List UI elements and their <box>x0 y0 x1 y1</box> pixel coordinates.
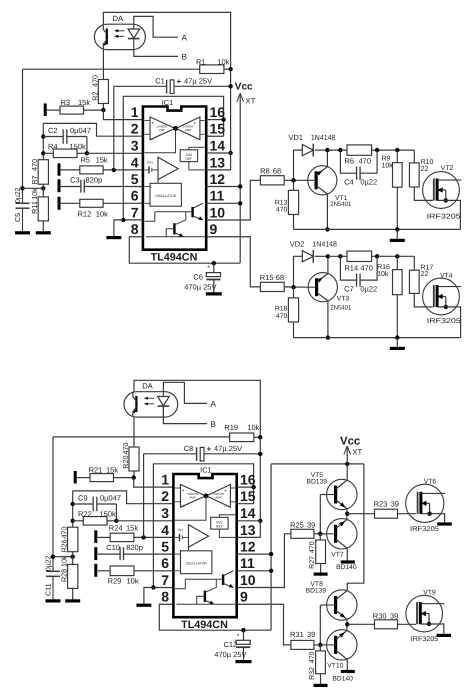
ground row2 <box>390 338 405 349</box>
pins 16/15 bracket (bottom) <box>237 485 256 504</box>
svg-text:0µ22: 0µ22 <box>43 556 52 572</box>
svg-text:R15: R15 <box>260 273 274 282</box>
wire opto collector to right rail (bottom) <box>134 380 260 437</box>
svg-text:820p: 820p <box>126 543 143 552</box>
IC1 error amp 1 <box>145 117 176 140</box>
svg-text:22: 22 <box>421 271 429 278</box>
right rail R1/Vcc to pins 14,13 <box>206 69 233 170</box>
svg-text:VT6: VT6 <box>424 479 437 486</box>
svg-text:R12: R12 <box>78 210 92 219</box>
svg-text:A: A <box>211 400 217 409</box>
svg-text:15: 15 <box>210 121 226 137</box>
ground bar left of R29 <box>94 564 97 577</box>
svg-text:8: 8 <box>131 221 139 237</box>
svg-text:2N5401: 2N5401 <box>330 304 351 311</box>
svg-text:OSCILLATOR: OSCILLATOR <box>155 194 177 198</box>
svg-text:_: _ <box>193 135 197 140</box>
svg-text:0V1: 0V1 <box>178 528 184 532</box>
optocoupler LED <box>128 24 140 49</box>
svg-text:R22: R22 <box>78 510 92 519</box>
svg-text:15k: 15k <box>96 156 108 165</box>
terminal XT arrow (top) <box>237 93 256 263</box>
ground bar left of R3 <box>44 103 47 116</box>
svg-text:R4: R4 <box>48 142 58 151</box>
svg-text:C12: C12 <box>224 640 238 649</box>
capacitor C12 470u 25V <box>214 628 251 662</box>
pin 8 wire to C6 node <box>129 237 240 263</box>
IC1 output transistor Q1 <box>145 203 203 221</box>
pin 10 wire to R25 <box>237 534 291 588</box>
svg-text:4: 4 <box>161 522 169 538</box>
svg-text:R16: R16 <box>377 264 390 271</box>
svg-text:39: 39 <box>307 630 315 639</box>
IC1 pin 3 number <box>131 137 139 153</box>
IC1 ground bus (pins 15/16 top rail and left rail) <box>123 96 223 220</box>
resistor R3 15k <box>47 98 104 114</box>
wire pin 2 net <box>41 123 143 153</box>
transistor VT4 IRF3205 <box>423 272 462 337</box>
svg-text:AMP: AMP <box>215 495 222 499</box>
wire pin 2 net (bottom) <box>71 491 174 521</box>
svg-text:VD2: VD2 <box>290 239 305 248</box>
svg-text:1N4148: 1N4148 <box>311 133 336 142</box>
pin 9 wire to R31 <box>237 604 291 645</box>
IC1b pin 14 number <box>240 505 256 521</box>
resistor R32 470 <box>309 645 325 684</box>
optocoupler DA body <box>94 14 145 50</box>
svg-text:B: B <box>211 420 217 429</box>
svg-text:470: 470 <box>309 541 316 553</box>
wire opto emitter to R2 <box>102 50 104 80</box>
Vcc rail (bottom) <box>271 462 364 631</box>
svg-text:10k: 10k <box>247 423 259 432</box>
svg-text:R28: R28 <box>60 569 69 582</box>
svg-text:10k: 10k <box>217 57 229 66</box>
svg-text:XT: XT <box>245 96 255 105</box>
IC1b pin 16 number <box>240 472 256 488</box>
svg-text:39: 39 <box>307 521 315 530</box>
svg-text:0µ22: 0µ22 <box>360 177 377 186</box>
svg-text:68: 68 <box>273 167 281 176</box>
svg-text:10k: 10k <box>377 270 389 278</box>
IC1 feedback node to pin 3 <box>145 126 178 153</box>
svg-text:R6: R6 <box>344 156 354 165</box>
ground bar left of C3 <box>58 179 61 192</box>
resistor R20 470 <box>121 443 139 472</box>
svg-text:TL494CN: TL494CN <box>181 619 228 631</box>
IC1 pin 16 number <box>210 104 226 120</box>
svg-text:15k: 15k <box>106 466 118 475</box>
resistor R24 15k <box>97 524 173 542</box>
transistor VT7 BD140 <box>327 514 357 572</box>
svg-text:R8: R8 <box>260 167 270 176</box>
svg-text:BD139: BD139 <box>307 479 328 486</box>
wire opto collector to right rail <box>103 12 230 69</box>
svg-text:470: 470 <box>121 443 130 455</box>
svg-text:R32: R32 <box>309 667 316 680</box>
svg-text:R3: R3 <box>61 98 71 107</box>
svg-text:2: 2 <box>161 488 169 504</box>
svg-text:BD139: BD139 <box>306 587 327 594</box>
svg-text:R1: R1 <box>196 57 206 66</box>
IC1b 5V reference box <box>211 515 236 538</box>
svg-text:0µ22: 0µ22 <box>13 188 22 204</box>
IC1b pin 13 number <box>240 522 256 538</box>
IC1b ground bus (pins 15/16 top rail and left rail) <box>153 464 253 588</box>
svg-text:B: B <box>182 53 188 62</box>
svg-text:DA: DA <box>142 382 153 391</box>
wire opto emitter to R20 (bottom) <box>133 417 135 447</box>
svg-text:+: + <box>224 489 227 494</box>
svg-text:470: 470 <box>276 207 288 214</box>
svg-text:R21: R21 <box>89 466 103 475</box>
svg-text:4: 4 <box>131 154 139 170</box>
ground at pin 7 (bottom) <box>136 604 151 607</box>
svg-text:0µ22: 0µ22 <box>360 284 377 293</box>
svg-text:XT: XT <box>352 447 362 456</box>
svg-text:10: 10 <box>240 572 256 588</box>
svg-text:15k: 15k <box>126 524 138 533</box>
svg-text:470µ 25V: 470µ 25V <box>184 283 216 292</box>
svg-text:+: + <box>193 121 196 126</box>
IC1 dead-time comparator <box>145 157 179 183</box>
svg-text:C9: C9 <box>78 494 88 503</box>
IC1b label TL494CN <box>181 619 228 631</box>
svg-text:R9: R9 <box>382 156 391 163</box>
svg-text:Vcc: Vcc <box>235 81 253 92</box>
svg-text:10k: 10k <box>382 162 394 170</box>
wire row1 emitter/source ground row <box>294 227 461 231</box>
optocoupler phototransistor (bottom) <box>133 392 137 417</box>
svg-text:470: 470 <box>309 651 316 663</box>
svg-text:IRF3205: IRF3205 <box>410 526 439 533</box>
resistor R31 39 <box>290 630 320 649</box>
wire VT7 collector to ground <box>341 548 355 562</box>
pin 8 wire to C12 node <box>159 604 271 630</box>
wire row2 emitter/source ground row <box>294 335 461 339</box>
svg-text:VT7: VT7 <box>331 552 344 559</box>
IC1b pin 9 number <box>240 589 248 605</box>
wire left rail <box>20 69 24 203</box>
IC1b output transistor Q1 <box>175 571 233 589</box>
resistor R14 470 <box>344 251 414 272</box>
svg-text:Vcc: Vcc <box>340 435 360 447</box>
IC1 pin 12 number <box>210 171 226 187</box>
ground bar left of R5 <box>58 163 61 176</box>
svg-text:15: 15 <box>240 488 256 504</box>
resistor R5 15k <box>61 156 143 174</box>
resistor R18 470 <box>275 287 299 337</box>
svg-text:10k: 10k <box>60 555 69 567</box>
IC1b pin 15 number <box>240 488 256 504</box>
resistor R13 470 <box>275 180 299 229</box>
IC1 pin 1 number <box>131 104 139 120</box>
svg-text:OSCILLATOR: OSCILLATOR <box>186 561 208 565</box>
pins 16/15 bracket <box>206 117 226 136</box>
IC1b pin 6 number <box>161 555 169 571</box>
emitter junction lower pair <box>345 622 374 626</box>
IC1 pin 15 number <box>210 121 226 137</box>
wire A (bottom) <box>163 382 216 408</box>
wire B (LED cathode to terminal B) <box>134 50 188 62</box>
transistor VT8 BD139 <box>306 581 357 624</box>
ground row1 <box>390 229 405 240</box>
capacitor C8 47u 25V <box>144 444 261 537</box>
svg-text:+: + <box>182 489 185 494</box>
svg-text:BD140: BD140 <box>332 676 353 683</box>
svg-text:AMP: AMP <box>185 128 192 132</box>
IC1 pin 10 number <box>210 204 226 220</box>
wire bases VT5/VT7 <box>318 495 327 537</box>
IC1b pin 5 number <box>161 539 169 555</box>
wire VD2 row <box>328 254 347 258</box>
ground under R32 <box>314 684 328 687</box>
pin 12 lead <box>206 184 242 188</box>
transistor VT6 IRF3205 <box>406 479 452 533</box>
IC1 pin 8 number <box>131 221 139 237</box>
IC1b pin 4 number <box>161 522 169 538</box>
transistor VT9 IRF3205 <box>406 589 451 642</box>
IC1 output transistor Q2 <box>146 212 205 237</box>
transistor VT5 BD139 <box>307 472 357 514</box>
ground bar left of R12 <box>58 197 61 210</box>
wire bases VT8/VT10 <box>318 605 327 647</box>
transistor VT2 IRF3205 <box>423 165 462 229</box>
svg-text:1: 1 <box>161 472 169 488</box>
svg-text:VT9: VT9 <box>423 589 436 596</box>
svg-text:R11: R11 <box>30 201 39 214</box>
svg-text:R14: R14 <box>344 263 358 272</box>
svg-text:REF: REF <box>186 157 193 161</box>
svg-text:22: 22 <box>421 166 429 173</box>
svg-text:5: 5 <box>131 171 139 187</box>
IC1 pin 11 number <box>210 188 225 204</box>
wire Vcc to VT5 collector <box>346 464 348 480</box>
IC1b dead-time comparator <box>175 525 209 551</box>
svg-text:_: _ <box>223 503 227 508</box>
svg-text:REF: REF <box>216 525 223 529</box>
capacitor C3 820p <box>61 175 143 192</box>
svg-text:9: 9 <box>210 221 218 237</box>
IC1 label TL494CN <box>151 251 198 263</box>
ground under C11 <box>46 599 61 602</box>
resistor R30 39 <box>373 611 416 628</box>
optocoupler light arrows <box>114 29 124 38</box>
IC1b feedback node to pin 3 <box>175 494 208 521</box>
resistor R10 22 <box>409 150 433 200</box>
IC1 pin 7 number <box>131 204 139 220</box>
pin 10 wire to R8 <box>206 180 260 220</box>
svg-text:10k: 10k <box>96 210 108 219</box>
resistor R21 15k <box>77 466 134 482</box>
IC1 pin 2 number <box>131 121 139 137</box>
terminal XT arrow (bottom) <box>344 446 363 464</box>
emitter junction upper pair <box>345 512 374 516</box>
resistor R28 10k <box>60 555 78 600</box>
svg-text:39: 39 <box>390 611 398 620</box>
capacitor C2 0u047 <box>43 126 91 144</box>
IC1b pin 2 number <box>161 488 169 504</box>
pin 11 lead (bottom) <box>237 569 274 573</box>
pin 7 ground <box>114 218 143 237</box>
IC1 error amp 2 <box>176 117 205 140</box>
pin 12 lead (bottom) <box>237 552 274 556</box>
resistor R16 10k <box>377 256 402 337</box>
svg-text:12: 12 <box>240 539 256 555</box>
wire B (bottom) <box>163 406 216 429</box>
right rail R19 to pins 14,13 (bottom) <box>237 437 263 537</box>
svg-text:C6: C6 <box>193 272 203 281</box>
svg-text:3: 3 <box>161 505 169 521</box>
resistor R27 470 <box>309 534 325 573</box>
resistor R6 470 <box>344 145 414 166</box>
svg-text:13: 13 <box>240 522 256 538</box>
optocoupler light arrows (bottom) <box>144 397 154 406</box>
svg-text:470µ 25V: 470µ 25V <box>214 650 246 659</box>
wire C9/R22 to pin 3 <box>114 504 173 523</box>
resistor R29 10k <box>97 566 173 586</box>
svg-text:7: 7 <box>131 204 139 220</box>
IC1b error amp 2 <box>206 485 235 508</box>
IC1b output transistor Q2 <box>176 579 235 604</box>
svg-text:+: + <box>207 444 212 453</box>
svg-text:R27: R27 <box>309 556 316 569</box>
wire Vcc to VT8 collector <box>347 464 364 590</box>
svg-text:IRF3205: IRF3205 <box>411 636 439 643</box>
svg-text:470: 470 <box>359 156 372 165</box>
svg-text:R7: R7 <box>30 175 39 184</box>
svg-text:2N5401: 2N5401 <box>330 201 351 208</box>
svg-text:0µ047: 0µ047 <box>70 126 91 135</box>
IC1b pin 8 number <box>161 589 169 605</box>
wire divider midpoint <box>23 186 46 190</box>
svg-text:C5: C5 <box>13 213 22 222</box>
resistor R2 470 <box>90 75 108 104</box>
wire VD1 row <box>327 148 347 152</box>
svg-text:R23: R23 <box>374 500 388 509</box>
svg-text:VT2: VT2 <box>441 165 454 172</box>
IC1b pin 10 number <box>240 572 256 588</box>
IC1b oscillator box <box>175 551 212 574</box>
svg-text:0V1: 0V1 <box>147 160 153 164</box>
resistor R22 150k <box>71 510 117 526</box>
svg-text:R5: R5 <box>80 156 90 165</box>
svg-text:5: 5 <box>161 539 169 555</box>
svg-text:820p: 820p <box>86 175 103 184</box>
svg-text:VD1: VD1 <box>288 133 303 142</box>
svg-text:9: 9 <box>240 589 248 605</box>
svg-text:15k: 15k <box>78 98 90 107</box>
svg-text:R20: R20 <box>121 456 130 469</box>
wire R2/R3 to pin 1 <box>101 104 143 120</box>
svg-text:470: 470 <box>90 75 99 87</box>
ground under R28 <box>65 599 80 602</box>
IC1 pin 14 number <box>210 137 226 153</box>
resistor R4 150k <box>41 142 87 158</box>
svg-text:470: 470 <box>30 159 39 171</box>
svg-text:150k: 150k <box>100 510 117 519</box>
svg-text:12: 12 <box>210 171 226 187</box>
svg-text:C8: C8 <box>184 444 194 453</box>
ground bar left of R21 <box>74 471 77 484</box>
svg-text:R18: R18 <box>275 306 288 313</box>
resistor R17 22 <box>409 256 433 307</box>
transistor VT10 BD140 <box>327 624 357 682</box>
IC1 pin 4 number <box>131 154 139 170</box>
svg-text:R13: R13 <box>275 199 288 206</box>
resistor R7 470 <box>30 153 48 188</box>
resistor R26 470 <box>60 521 78 557</box>
svg-text:VT4: VT4 <box>440 272 453 279</box>
wire VT10 collector to ground <box>341 659 355 671</box>
pin 7 ground (bottom) <box>144 585 174 604</box>
svg-text:C3: C3 <box>70 175 80 184</box>
svg-text:39: 39 <box>391 500 399 509</box>
resistor R8 68 <box>260 167 308 185</box>
IC1b pin 7 number <box>161 572 169 588</box>
IC1 pin 6 number <box>131 188 139 204</box>
svg-text:C11: C11 <box>43 583 52 596</box>
svg-text:DA: DA <box>113 14 124 23</box>
Vcc label (top) <box>235 81 253 92</box>
IC1 oscillator box <box>145 183 182 206</box>
svg-text:470: 470 <box>60 527 69 539</box>
svg-text:13: 13 <box>210 154 226 170</box>
capacitor C1 47u 25V <box>114 77 231 170</box>
optocoupler DA (bottom) body <box>124 382 178 418</box>
svg-text:C2: C2 <box>48 126 58 135</box>
IC1 pin 13 number <box>210 154 226 170</box>
resistor R9 10k <box>382 150 403 229</box>
pin 11 lead <box>206 201 242 205</box>
svg-text:3: 3 <box>131 137 139 153</box>
ground under R27 <box>314 572 328 575</box>
svg-text:6: 6 <box>161 555 169 571</box>
resistor R11 10k <box>30 188 48 232</box>
svg-text:A: A <box>182 33 188 42</box>
svg-text:1: 1 <box>131 104 139 120</box>
transistor VT1 2N5401 <box>308 148 352 232</box>
capacitor C6 470u 25V <box>184 261 222 294</box>
wire C2/R4 to pin 3 <box>85 137 143 156</box>
svg-text:IC1: IC1 <box>200 465 212 474</box>
pin 9 wire to R15 <box>206 237 260 287</box>
resistor R12 10k <box>61 199 143 218</box>
IC1b body <box>173 465 236 617</box>
wire A (LED anode to terminal A) <box>134 16 188 42</box>
capacitor C7 0u22 <box>340 256 377 293</box>
IC1 pin 9 number <box>210 221 218 237</box>
capacitor C10 820p <box>97 543 173 560</box>
svg-text:11: 11 <box>210 188 225 204</box>
optocoupler LED (bottom) <box>158 392 170 417</box>
svg-text:VT3: VT3 <box>337 296 350 303</box>
IC1b pin 11 number <box>240 555 255 571</box>
Vcc label (bottom) <box>340 435 360 447</box>
IC1 pin 5 number <box>131 171 139 187</box>
svg-text:C10: C10 <box>106 543 120 552</box>
svg-text:14: 14 <box>240 505 256 521</box>
IC1b pin 1 number <box>161 472 169 488</box>
svg-text:7: 7 <box>161 572 169 588</box>
transistor VT3 2N5401 <box>308 254 352 340</box>
svg-text:_: _ <box>181 503 185 508</box>
svg-text:10k: 10k <box>127 577 139 586</box>
capacitor C11 0u22 <box>43 556 60 600</box>
svg-text:68: 68 <box>276 273 284 282</box>
svg-text:R24: R24 <box>109 524 123 533</box>
svg-text:+: + <box>177 77 182 86</box>
